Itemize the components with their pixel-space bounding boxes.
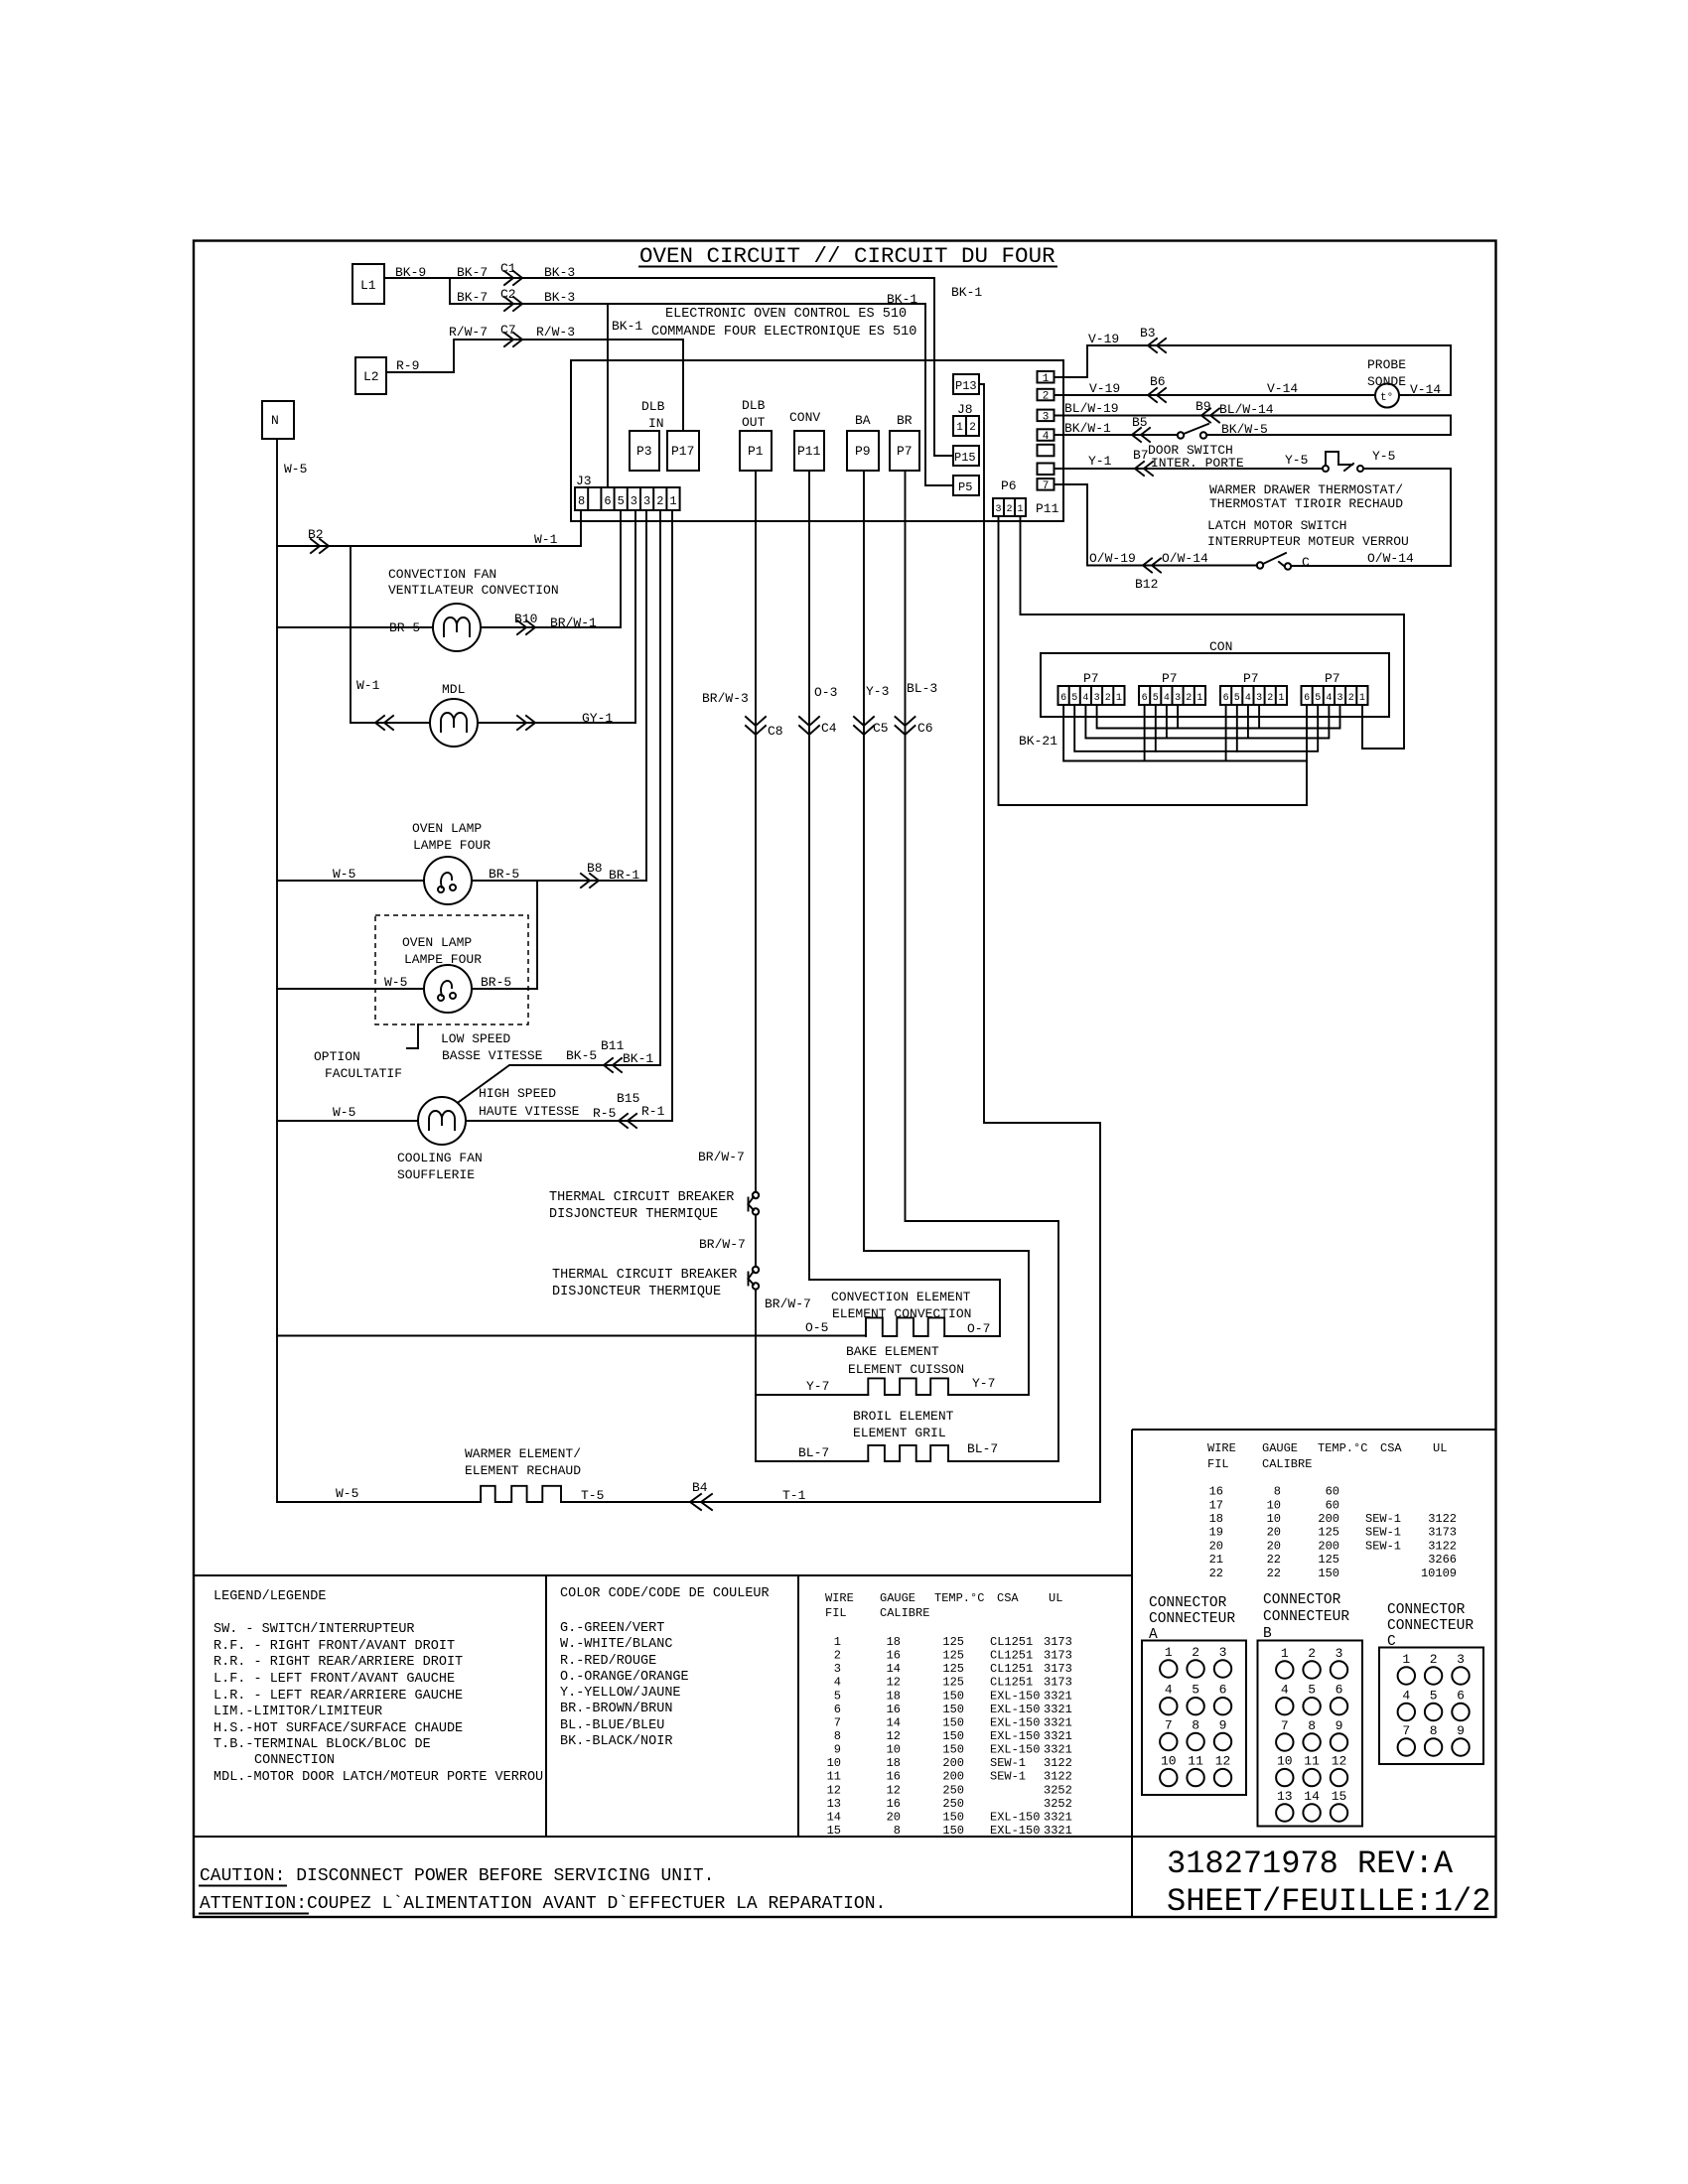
svg-text:P11: P11 bbox=[1036, 501, 1059, 516]
svg-text:BR-1: BR-1 bbox=[609, 868, 639, 883]
svg-text:BR: BR bbox=[897, 413, 913, 428]
svg-text:EXL-150: EXL-150 bbox=[990, 1703, 1040, 1716]
svg-text:ELEMENT RECHAUD: ELEMENT RECHAUD bbox=[465, 1463, 581, 1478]
svg-text:5: 5 bbox=[1430, 1689, 1438, 1704]
svg-text:FACULTATIF: FACULTATIF bbox=[325, 1066, 402, 1081]
svg-text:5: 5 bbox=[1308, 1683, 1316, 1698]
wire BK/W-1 B5 from EOC pin4 bbox=[1055, 415, 1178, 436]
svg-text:3: 3 bbox=[1094, 693, 1100, 704]
wire T-5/T-1 B4 warmer to P13 bbox=[561, 384, 1100, 1503]
svg-text:13: 13 bbox=[1277, 1789, 1293, 1804]
connector J8 bbox=[953, 402, 979, 436]
svg-text:11: 11 bbox=[1188, 1754, 1203, 1769]
cooling fan motor bbox=[397, 1097, 483, 1182]
svg-text:200: 200 bbox=[1318, 1539, 1339, 1553]
svg-text:V-19: V-19 bbox=[1088, 332, 1119, 346]
svg-text:2: 2 bbox=[1043, 391, 1050, 403]
svg-text:DLB: DLB bbox=[641, 399, 665, 414]
wire CON pin6 bus bbox=[1063, 705, 1307, 761]
electronic oven control ES 510 label bbox=[651, 307, 916, 340]
wire W-1 branch down to MDL bbox=[350, 546, 352, 723]
svg-text:W-5: W-5 bbox=[333, 867, 355, 882]
wire V-19/V-14 B6 probe line from EOC pin2 bbox=[1055, 345, 1451, 397]
svg-text:5: 5 bbox=[1192, 1683, 1199, 1698]
connector C6 chevrons bbox=[896, 717, 915, 735]
svg-text:P1: P1 bbox=[748, 444, 764, 459]
connector B8 arrows bbox=[581, 874, 599, 887]
svg-text:O-5: O-5 bbox=[805, 1320, 828, 1335]
svg-text:7: 7 bbox=[834, 1715, 841, 1729]
svg-text:BR-5: BR-5 bbox=[389, 620, 420, 635]
label DLB IN bbox=[641, 399, 665, 431]
svg-text:4: 4 bbox=[1402, 1689, 1410, 1704]
svg-text:OVEN CIRCUIT // CIRCUIT DU FOU: OVEN CIRCUIT // CIRCUIT DU FOUR bbox=[639, 243, 1055, 269]
svg-text:ATTENTION:COUPEZ L`ALIMENTATIO: ATTENTION:COUPEZ L`ALIMENTATION AVANT D`… bbox=[200, 1894, 886, 1914]
svg-text:18: 18 bbox=[1209, 1512, 1223, 1526]
svg-text:7: 7 bbox=[1043, 480, 1050, 492]
connector C8 chevrons bbox=[746, 717, 766, 735]
svg-text:CSA: CSA bbox=[1380, 1441, 1402, 1455]
svg-text:1: 1 bbox=[1402, 1652, 1410, 1667]
svg-text:R-1: R-1 bbox=[641, 1104, 665, 1119]
svg-text:10: 10 bbox=[1267, 1512, 1281, 1526]
svg-text:W-5: W-5 bbox=[336, 1486, 358, 1501]
svg-text:6: 6 bbox=[1060, 693, 1066, 704]
svg-text:150: 150 bbox=[942, 1715, 964, 1729]
svg-text:2: 2 bbox=[1308, 1646, 1316, 1661]
svg-text:20: 20 bbox=[1267, 1526, 1281, 1540]
svg-text:250: 250 bbox=[942, 1783, 964, 1797]
svg-text:CSA: CSA bbox=[997, 1591, 1019, 1605]
svg-text:22: 22 bbox=[1267, 1567, 1281, 1580]
connector B2 arrows bbox=[311, 539, 329, 553]
svg-text:BR/W-7: BR/W-7 bbox=[765, 1297, 811, 1311]
svg-text:T-1: T-1 bbox=[782, 1488, 806, 1503]
svg-text:ELEMENT CONVECTION: ELEMENT CONVECTION bbox=[832, 1306, 971, 1321]
connector P17 (DLB IN) bbox=[667, 431, 699, 471]
svg-text:B9: B9 bbox=[1196, 399, 1211, 414]
svg-text:CONVECTION ELEMENT: CONVECTION ELEMENT bbox=[831, 1290, 971, 1304]
svg-text:L.R. - LEFT REAR/ARRIERE GAUCH: L.R. - LEFT REAR/ARRIERE GAUCHE bbox=[213, 1689, 463, 1704]
svg-text:1: 1 bbox=[1196, 693, 1202, 704]
svg-text:9: 9 bbox=[1219, 1718, 1227, 1733]
svg-text:R.F. - RIGHT FRONT/AVANT DROIT: R.F. - RIGHT FRONT/AVANT DROIT bbox=[213, 1639, 455, 1654]
wire BR-5 branch lamp1 to lamp2 bbox=[536, 881, 538, 989]
svg-text:N: N bbox=[271, 413, 279, 428]
svg-text:BK-7: BK-7 bbox=[457, 265, 488, 280]
svg-text:7: 7 bbox=[1281, 1718, 1289, 1733]
svg-text:2: 2 bbox=[1105, 693, 1111, 704]
svg-text:12: 12 bbox=[1215, 1754, 1231, 1769]
svg-text:16: 16 bbox=[887, 1770, 901, 1784]
svg-text:125: 125 bbox=[1318, 1526, 1339, 1540]
svg-text:3122: 3122 bbox=[1044, 1756, 1072, 1770]
svg-text:Y.-YELLOW/JAUNE: Y.-YELLOW/JAUNE bbox=[560, 1686, 681, 1701]
svg-text:B15: B15 bbox=[617, 1091, 639, 1106]
svg-text:SOUFFLERIE: SOUFFLERIE bbox=[397, 1167, 475, 1182]
svg-text:W-5: W-5 bbox=[284, 462, 307, 477]
svg-text:FIL: FIL bbox=[1207, 1457, 1229, 1471]
svg-text:6: 6 bbox=[1304, 693, 1310, 704]
svg-text:H.S.-HOT SURFACE/SURFACE CHAUD: H.S.-HOT SURFACE/SURFACE CHAUDE bbox=[213, 1721, 463, 1736]
svg-text:V-14: V-14 bbox=[1410, 382, 1441, 397]
svg-text:Y-1: Y-1 bbox=[1088, 454, 1112, 469]
svg-text:BAKE ELEMENT: BAKE ELEMENT bbox=[846, 1344, 939, 1359]
svg-text:3: 3 bbox=[1219, 1645, 1227, 1660]
svg-text:BL/W-14: BL/W-14 bbox=[1219, 402, 1274, 417]
svg-text:BASSE VITESSE: BASSE VITESSE bbox=[442, 1048, 543, 1063]
door switch SW on BK/W line bbox=[1148, 422, 1451, 471]
connector B4 arrows bbox=[690, 1494, 712, 1510]
wire gauge table (wires 1-15) bbox=[825, 1591, 1072, 1838]
svg-text:1: 1 bbox=[1043, 373, 1050, 385]
svg-text:Y-7: Y-7 bbox=[972, 1376, 995, 1391]
svg-text:BK/W-5: BK/W-5 bbox=[1221, 422, 1268, 437]
svg-text:P7: P7 bbox=[1083, 671, 1099, 686]
svg-text:P5: P5 bbox=[958, 480, 972, 494]
EOC board box U1 bbox=[571, 360, 1063, 521]
svg-text:3: 3 bbox=[1457, 1652, 1465, 1667]
connector C4 chevrons bbox=[799, 717, 819, 735]
svg-text:BK-1: BK-1 bbox=[951, 285, 982, 300]
svg-text:BK.-BLACK/NOIR: BK.-BLACK/NOIR bbox=[560, 1734, 672, 1749]
svg-text:6: 6 bbox=[1336, 1683, 1343, 1698]
svg-text:3: 3 bbox=[643, 494, 650, 508]
svg-text:CALIBRE: CALIBRE bbox=[880, 1606, 929, 1620]
svg-text:C4: C4 bbox=[821, 721, 837, 736]
svg-text:MDL.-MOTOR DOOR LATCH/MOTEUR P: MDL.-MOTOR DOOR LATCH/MOTEUR PORTE VERRO… bbox=[213, 1770, 543, 1785]
svg-text:O/W-14: O/W-14 bbox=[1367, 551, 1414, 566]
svg-text:BK-7: BK-7 bbox=[457, 290, 488, 305]
EOC edge pin box 2 bbox=[1038, 389, 1055, 403]
svg-text:6: 6 bbox=[834, 1703, 841, 1716]
svg-text:CONNECTION: CONNECTION bbox=[254, 1753, 335, 1768]
oven lamp 2 (option) bbox=[402, 935, 482, 1013]
caution notice bbox=[200, 1866, 886, 1914]
connector P7 row 1 (CON) bbox=[1058, 671, 1125, 705]
svg-text:DISJONCTEUR THERMIQUE: DISJONCTEUR THERMIQUE bbox=[552, 1285, 721, 1299]
connector P6 3-pin bbox=[993, 478, 1059, 516]
svg-text:8: 8 bbox=[1430, 1723, 1438, 1738]
connector C2 arrows bbox=[504, 297, 522, 311]
connector B7 arrows bbox=[1135, 462, 1153, 476]
svg-text:P7: P7 bbox=[1325, 671, 1340, 686]
svg-text:4: 4 bbox=[1165, 1683, 1173, 1698]
svg-text:COOLING FAN: COOLING FAN bbox=[397, 1151, 483, 1165]
svg-text:8: 8 bbox=[1192, 1718, 1199, 1733]
svg-text:3: 3 bbox=[834, 1662, 841, 1676]
connector B9 arrows bbox=[1201, 409, 1219, 423]
svg-text:10: 10 bbox=[1267, 1498, 1281, 1512]
svg-text:SONDE: SONDE bbox=[1367, 374, 1406, 389]
optional oven lamp dashed box bbox=[375, 915, 528, 1048]
wire gauge table (wires 16-22) bbox=[1207, 1441, 1457, 1580]
svg-text:CONVECTION FAN: CONVECTION FAN bbox=[388, 567, 496, 582]
svg-text:BK-1: BK-1 bbox=[623, 1051, 653, 1066]
connector P7 row 3 (CON) bbox=[1220, 671, 1287, 705]
svg-text:CAUTION: DISCONNECT POWER BEFO: CAUTION: DISCONNECT POWER BEFORE SERVICI… bbox=[200, 1866, 714, 1886]
svg-text:15: 15 bbox=[1332, 1789, 1347, 1804]
EOC edge pin box 5 bbox=[1038, 445, 1055, 457]
svg-text:16: 16 bbox=[887, 1649, 901, 1663]
svg-text:R.R. - RIGHT REAR/ARRIERE DROI: R.R. - RIGHT REAR/ARRIERE DROIT bbox=[213, 1655, 463, 1670]
svg-text:P17: P17 bbox=[671, 444, 694, 459]
svg-text:BK-1: BK-1 bbox=[887, 292, 917, 307]
svg-text:200: 200 bbox=[1318, 1512, 1339, 1526]
wire CON pin4 bus bbox=[1085, 705, 1329, 739]
svg-text:3321: 3321 bbox=[1044, 1810, 1072, 1824]
svg-text:R/W-3: R/W-3 bbox=[536, 325, 575, 340]
MDL left arrows bbox=[375, 716, 393, 730]
svg-text:DLB: DLB bbox=[742, 398, 766, 413]
svg-text:W.-WHITE/BLANC: W.-WHITE/BLANC bbox=[560, 1637, 672, 1652]
title block part number bbox=[1167, 1845, 1490, 1920]
svg-text:BR.-BROWN/BRUN: BR.-BROWN/BRUN bbox=[560, 1702, 672, 1716]
title OVEN CIRCUIT // CIRCUIT DU FOUR bbox=[639, 243, 1056, 269]
connector C5 chevrons bbox=[854, 717, 874, 735]
svg-text:HIGH SPEED: HIGH SPEED bbox=[479, 1086, 556, 1101]
svg-text:60: 60 bbox=[1326, 1485, 1339, 1499]
svg-text:WIRE: WIRE bbox=[825, 1591, 854, 1605]
oven lamp 1 bbox=[412, 821, 491, 904]
svg-text:1: 1 bbox=[1359, 693, 1365, 704]
svg-text:V-19: V-19 bbox=[1089, 381, 1120, 396]
svg-text:10: 10 bbox=[1277, 1754, 1293, 1769]
svg-text:150: 150 bbox=[942, 1743, 964, 1757]
svg-text:3173: 3173 bbox=[1044, 1649, 1072, 1663]
svg-text:CONV: CONV bbox=[789, 410, 820, 425]
svg-text:8: 8 bbox=[1308, 1718, 1316, 1733]
svg-text:T.B.-TERMINAL BLOCK/BLOC DE: T.B.-TERMINAL BLOCK/BLOC DE bbox=[213, 1737, 431, 1752]
terminal L1 bbox=[352, 264, 384, 304]
svg-text:318271978 REV:A: 318271978 REV:A bbox=[1167, 1845, 1454, 1882]
svg-text:COMMANDE FOUR ELECTRONIQUE ES: COMMANDE FOUR ELECTRONIQUE ES 510 bbox=[651, 325, 916, 340]
svg-text:TEMP.°C: TEMP.°C bbox=[1318, 1441, 1367, 1455]
wire V-19 B3 from EOC pin1 bbox=[1055, 326, 1451, 377]
svg-text:5: 5 bbox=[1234, 693, 1240, 704]
connector B11 arrows bbox=[604, 1058, 622, 1072]
svg-text:125: 125 bbox=[942, 1649, 964, 1663]
svg-text:10: 10 bbox=[887, 1743, 901, 1757]
svg-text:8: 8 bbox=[578, 494, 585, 508]
wire BK-9/BK-7/BK-3 L1 to P15 (net BK-1) bbox=[384, 261, 982, 456]
svg-text:GY-1: GY-1 bbox=[582, 711, 613, 726]
svg-text:C5: C5 bbox=[873, 721, 889, 736]
svg-text:EXL-150: EXL-150 bbox=[990, 1810, 1040, 1824]
terminal N bbox=[262, 401, 294, 439]
svg-text:B11: B11 bbox=[601, 1038, 625, 1053]
svg-text:2: 2 bbox=[834, 1649, 841, 1663]
wire BR/W-3 P1 down through breakers (net BR/W-7) bbox=[702, 471, 783, 1192]
svg-text:C6: C6 bbox=[917, 721, 933, 736]
svg-text:COLOR CODE/CODE DE COULEUR: COLOR CODE/CODE DE COULEUR bbox=[560, 1586, 770, 1601]
svg-text:W-5: W-5 bbox=[333, 1105, 355, 1120]
connector C1 arrows bbox=[504, 271, 522, 285]
wire Y-1 B7 from EOC pin6 bbox=[1055, 448, 1323, 469]
svg-text:BK-9: BK-9 bbox=[395, 265, 426, 280]
svg-text:12: 12 bbox=[887, 1676, 901, 1690]
svg-text:4: 4 bbox=[1082, 693, 1088, 704]
wire R-9/R/W-7/R/W-3 L2 to P17 bbox=[386, 323, 683, 431]
svg-text:O/W-19: O/W-19 bbox=[1089, 551, 1136, 566]
svg-text:13: 13 bbox=[827, 1797, 841, 1811]
svg-text:SW. - SWITCH/INTERRUPTEUR: SW. - SWITCH/INTERRUPTEUR bbox=[213, 1622, 415, 1637]
connector P7 row 2 (CON) bbox=[1139, 671, 1205, 705]
svg-text:ELECTRONIC OVEN CONTROL ES 510: ELECTRONIC OVEN CONTROL ES 510 bbox=[665, 307, 907, 322]
svg-text:R/W-7: R/W-7 bbox=[449, 325, 488, 340]
svg-text:3173: 3173 bbox=[1428, 1526, 1457, 1540]
svg-text:BK-21: BK-21 bbox=[1019, 734, 1057, 749]
svg-text:Y-5: Y-5 bbox=[1285, 453, 1308, 468]
wire W-5/BR-5 oven lamp 2 bbox=[277, 975, 537, 990]
svg-text:18: 18 bbox=[887, 1756, 901, 1770]
svg-text:BL-7: BL-7 bbox=[798, 1445, 829, 1460]
svg-text:3321: 3321 bbox=[1044, 1743, 1072, 1757]
svg-text:WIRE: WIRE bbox=[1207, 1441, 1236, 1455]
svg-text:THERMOSTAT TIROIR RECHAUD: THERMOSTAT TIROIR RECHAUD bbox=[1209, 496, 1403, 511]
svg-text:12: 12 bbox=[827, 1783, 841, 1797]
wire W-1/GY-1 MDL to J3 pin 3 bbox=[351, 510, 635, 726]
svg-text:19: 19 bbox=[1209, 1526, 1223, 1540]
connector C bbox=[1379, 1602, 1483, 1764]
connector P7 (BR) bbox=[890, 413, 919, 471]
svg-text:EXL-150: EXL-150 bbox=[990, 1729, 1040, 1743]
legend text block bbox=[213, 1589, 543, 1785]
svg-text:12: 12 bbox=[1332, 1754, 1347, 1769]
wire Y-3 P9 down to bake element (C5) bbox=[864, 471, 1029, 1395]
warmer drawer thermostat bbox=[1209, 449, 1451, 566]
svg-text:BR-5: BR-5 bbox=[481, 975, 511, 990]
latch motor switch bbox=[1207, 518, 1451, 570]
connector P15 bbox=[953, 446, 979, 466]
svg-text:21: 21 bbox=[1209, 1553, 1223, 1567]
connector P3 (DLB IN) bbox=[630, 431, 659, 471]
svg-text:BA: BA bbox=[855, 413, 871, 428]
svg-text:5: 5 bbox=[1071, 693, 1077, 704]
wire CON pin5 bus bbox=[1074, 705, 1318, 751]
svg-text:2: 2 bbox=[1430, 1652, 1438, 1667]
label option facultatif bbox=[314, 1049, 402, 1081]
svg-text:6: 6 bbox=[604, 494, 611, 508]
svg-text:3: 3 bbox=[1336, 693, 1342, 704]
connector B10 arrows bbox=[517, 620, 535, 634]
svg-text:60: 60 bbox=[1326, 1498, 1339, 1512]
svg-text:1: 1 bbox=[1281, 1646, 1289, 1661]
svg-text:20: 20 bbox=[1209, 1539, 1223, 1553]
svg-text:150: 150 bbox=[942, 1689, 964, 1703]
wire O-5 line from W-5 bus to convection element bbox=[277, 1335, 866, 1337]
svg-text:2: 2 bbox=[1267, 693, 1273, 704]
svg-text:6: 6 bbox=[1219, 1683, 1227, 1698]
svg-text:OVEN LAMP: OVEN LAMP bbox=[412, 821, 482, 836]
svg-text:THERMAL CIRCUIT BREAKER: THERMAL CIRCUIT BREAKER bbox=[549, 1190, 734, 1205]
wire BK-1 drop to J3 pin 6 bbox=[608, 304, 642, 487]
svg-text:BL.-BLUE/BLEU: BL.-BLUE/BLEU bbox=[560, 1718, 664, 1733]
convection fan motor bbox=[388, 567, 559, 651]
svg-text:P13: P13 bbox=[955, 379, 977, 393]
svg-text:CONNECTEUR: CONNECTEUR bbox=[1149, 1611, 1235, 1627]
svg-text:EXL-150: EXL-150 bbox=[990, 1743, 1040, 1757]
wire W-5/BR-5/BR-1 B8 oven lamp to J3 pin 3 bbox=[277, 510, 646, 883]
wire BL-3 P7 down to broil element (C6) bbox=[906, 471, 1059, 1461]
svg-text:1: 1 bbox=[956, 422, 963, 434]
MDL motor door latch bbox=[356, 678, 478, 747]
svg-text:O.-ORANGE/ORANGE: O.-ORANGE/ORANGE bbox=[560, 1670, 689, 1685]
svg-text:3252: 3252 bbox=[1044, 1783, 1072, 1797]
svg-text:CL1251: CL1251 bbox=[990, 1649, 1033, 1663]
connector B bbox=[1258, 1592, 1363, 1827]
svg-text:16: 16 bbox=[887, 1797, 901, 1811]
svg-text:ELEMENT GRIL: ELEMENT GRIL bbox=[853, 1426, 946, 1440]
svg-text:7: 7 bbox=[1165, 1718, 1173, 1733]
svg-text:EXL-150: EXL-150 bbox=[990, 1689, 1040, 1703]
svg-text:CONNECTOR: CONNECTOR bbox=[1263, 1592, 1341, 1608]
svg-text:BL-7: BL-7 bbox=[967, 1441, 998, 1456]
wire BR-5 / BR/W-1 B10 convection fan to J3 pin 5 bbox=[277, 510, 621, 635]
connector A bbox=[1142, 1595, 1246, 1795]
svg-text:2: 2 bbox=[656, 494, 663, 508]
svg-text:CON: CON bbox=[1209, 639, 1232, 654]
svg-text:125: 125 bbox=[1318, 1553, 1339, 1567]
svg-text:OUT: OUT bbox=[742, 415, 766, 430]
svg-text:11: 11 bbox=[827, 1770, 841, 1784]
svg-text:14: 14 bbox=[827, 1810, 841, 1824]
svg-text:B6: B6 bbox=[1150, 374, 1166, 389]
svg-text:1: 1 bbox=[1116, 693, 1122, 704]
svg-text:UL: UL bbox=[1049, 1591, 1062, 1605]
svg-text:7: 7 bbox=[1402, 1723, 1410, 1738]
svg-text:2: 2 bbox=[1192, 1645, 1199, 1660]
svg-text:14: 14 bbox=[887, 1662, 901, 1676]
svg-text:P7: P7 bbox=[897, 444, 913, 459]
connector P11 (CONV) bbox=[789, 410, 824, 471]
svg-text:3173: 3173 bbox=[1044, 1662, 1072, 1676]
svg-text:L1: L1 bbox=[360, 278, 376, 293]
svg-text:250: 250 bbox=[942, 1797, 964, 1811]
svg-text:3321: 3321 bbox=[1044, 1689, 1072, 1703]
connector B6 arrows bbox=[1148, 388, 1166, 402]
svg-text:C8: C8 bbox=[768, 724, 783, 739]
svg-text:GAUGE: GAUGE bbox=[1262, 1441, 1298, 1455]
connector B3 arrows bbox=[1148, 339, 1166, 352]
svg-text:BL-3: BL-3 bbox=[907, 681, 937, 696]
svg-text:4: 4 bbox=[834, 1676, 841, 1690]
svg-text:t°: t° bbox=[1380, 392, 1393, 404]
svg-text:5: 5 bbox=[1153, 693, 1159, 704]
svg-text:200: 200 bbox=[942, 1756, 964, 1770]
svg-text:Y-5: Y-5 bbox=[1372, 449, 1395, 464]
svg-text:5: 5 bbox=[618, 494, 625, 508]
svg-text:GAUGE: GAUGE bbox=[880, 1591, 915, 1605]
svg-text:16: 16 bbox=[1209, 1485, 1223, 1499]
svg-text:CONNECTOR: CONNECTOR bbox=[1387, 1602, 1466, 1618]
svg-text:P15: P15 bbox=[954, 451, 976, 465]
wire W-5 to warmer element bbox=[277, 1501, 481, 1503]
svg-text:3122: 3122 bbox=[1044, 1770, 1072, 1784]
svg-text:WARMER DRAWER THERMOSTAT/: WARMER DRAWER THERMOSTAT/ bbox=[1209, 482, 1403, 497]
svg-text:LOW SPEED: LOW SPEED bbox=[441, 1031, 510, 1046]
svg-text:TEMP.°C: TEMP.°C bbox=[934, 1591, 984, 1605]
svg-text:12: 12 bbox=[887, 1729, 901, 1743]
svg-text:150: 150 bbox=[1318, 1567, 1339, 1580]
svg-text:R-5: R-5 bbox=[593, 1106, 616, 1121]
svg-text:200: 200 bbox=[942, 1770, 964, 1784]
svg-text:B4: B4 bbox=[692, 1480, 708, 1495]
svg-text:Y-3: Y-3 bbox=[866, 684, 889, 699]
wire W-5/R-5/R-1 B15 high speed to J3 pin 1 bbox=[277, 510, 672, 1121]
wire W-5 left bus from N bbox=[277, 439, 307, 1502]
EOC edge pin box 4 bbox=[1038, 429, 1055, 443]
